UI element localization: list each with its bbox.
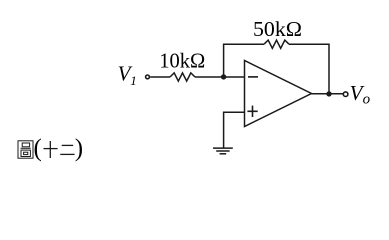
resistor R2 50kOhm <box>264 40 289 48</box>
node V1 input terminal <box>146 75 150 79</box>
svg-text:10kΩ: 10kΩ <box>159 49 205 73</box>
svg-text:(: ( <box>34 135 42 162</box>
caption glyph two (er) drawn <box>60 145 74 154</box>
wire feedback: node A up and right to R2 <box>224 44 264 77</box>
wire op-amp output to Vo terminal <box>312 93 344 95</box>
op-amp U1 plus sign <box>247 106 257 117</box>
svg-text:1: 1 <box>130 73 137 88</box>
caption glyph TU (figure) drawn <box>18 141 33 158</box>
node output junction dot <box>326 91 331 96</box>
node A junction dot (inverting input) <box>221 74 226 79</box>
svg-text:): ) <box>75 135 83 162</box>
wire input terminal to R1 <box>150 76 170 78</box>
label Vo <box>350 81 371 108</box>
op-amp U1 minus sign <box>248 76 258 78</box>
label V1 <box>118 62 137 88</box>
node Vo output terminal <box>343 92 348 97</box>
op-amp U1 triangle <box>245 61 312 127</box>
wire R2 right and down to output node <box>289 44 329 94</box>
svg-text:o: o <box>363 92 371 108</box>
wire op-amp non-inverting input to ground corner <box>224 112 245 147</box>
svg-text:50kΩ: 50kΩ <box>253 17 302 41</box>
resistor R1 10kOhm <box>170 73 195 81</box>
caption glyph ten (shi) drawn <box>44 141 58 158</box>
ground <box>213 148 233 154</box>
wire node A to op-amp inverting input <box>224 76 245 78</box>
wire R1 to node A <box>195 76 224 78</box>
